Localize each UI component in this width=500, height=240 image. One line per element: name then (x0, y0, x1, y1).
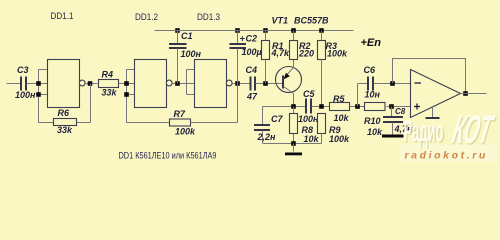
svg-text:DD1 К561ЛЕ10 или К561ЛА9: DD1 К561ЛЕ10 или К561ЛА9 (119, 150, 217, 161)
capacitor C2 (230, 28, 262, 83)
svg-text:BC557B: BC557B (294, 16, 329, 26)
svg-text:C2: C2 (246, 34, 258, 44)
svg-text:100k: 100k (175, 126, 196, 136)
capacitor C4 (246, 65, 259, 102)
power rail +En (155, 31, 382, 49)
svg-text:VT1: VT1 (272, 15, 289, 25)
svg-text:100k: 100k (327, 49, 348, 59)
resistor R3 (318, 28, 349, 106)
wire op-amp output (461, 93, 487, 95)
wire C6 to inverting input (374, 81, 411, 86)
svg-text:10k: 10k (334, 113, 350, 123)
svg-text:4,7k: 4,7k (271, 48, 291, 58)
svg-text:C4: C4 (246, 65, 258, 75)
capacitor C3 (15, 65, 36, 100)
capacitor C1 (169, 28, 202, 83)
transistor VT1 (272, 15, 330, 106)
svg-text:Радио: Радио (404, 115, 444, 148)
svg-text:radiokot.ru: radiokot.ru (405, 150, 488, 162)
ground C8 (382, 135, 404, 138)
ground (263, 141, 322, 155)
svg-text:DD1.1: DD1.1 (51, 11, 74, 21)
wire R5 to R10 (350, 104, 366, 109)
svg-text:R5: R5 (333, 94, 345, 104)
svg-text:100н: 100н (15, 90, 36, 100)
svg-text:R4: R4 (102, 70, 114, 80)
node DD1.1 input bar (36, 70, 47, 123)
resistor R8 (290, 107, 320, 144)
wire C5 to R5 (312, 104, 330, 109)
gate DD1.1 (48, 11, 86, 108)
node DD1.3 input bar (187, 70, 195, 95)
resistor R9 (318, 114, 351, 144)
svg-text:47: 47 (246, 92, 258, 102)
svg-text:10k: 10k (304, 134, 320, 144)
svg-text:33k: 33k (102, 88, 118, 98)
wire input (7, 83, 21, 85)
node DD1.2 input bar (124, 70, 134, 123)
svg-text:2,2н: 2,2н (257, 132, 277, 142)
svg-text:DD1.3: DD1.3 (197, 12, 220, 22)
svg-text:R7: R7 (174, 109, 186, 119)
wire C4 to VT1 base (256, 81, 283, 86)
svg-text:C6: C6 (364, 65, 376, 75)
resistor R7 (127, 84, 238, 137)
gate DD1.2 (135, 12, 173, 108)
resistor R10 (364, 103, 385, 137)
capacitor C8 (383, 107, 413, 135)
gate DD1.3 (195, 12, 233, 108)
svg-text:R6: R6 (58, 108, 70, 118)
svg-text:C3: C3 (17, 65, 29, 75)
resistor R4 (99, 70, 127, 98)
svg-text:C7: C7 (271, 114, 283, 124)
svg-text:220: 220 (298, 49, 314, 59)
svg-text:100µ: 100µ (242, 47, 262, 57)
capacitor C7 (254, 107, 283, 144)
wire R10 to op-amp (387, 104, 411, 109)
svg-text:10н: 10н (365, 90, 381, 100)
capacitor C6 (364, 65, 381, 100)
svg-text:33k: 33k (57, 125, 73, 135)
svg-text:+En: +En (361, 37, 382, 49)
svg-text:C5: C5 (303, 89, 315, 99)
wire to C6 (358, 84, 369, 107)
svg-text:DD1.2: DD1.2 (135, 12, 158, 22)
resistor R2 (290, 28, 315, 59)
svg-text:10k: 10k (367, 127, 383, 137)
wire DD1.2 to DD1.3 (172, 81, 186, 86)
capacitor C5 (298, 89, 319, 124)
svg-text:R10: R10 (364, 116, 381, 126)
resistor R6 (39, 84, 91, 135)
resistor R5 (330, 94, 350, 123)
resistor R1 (262, 28, 291, 83)
op-amp U1 (411, 70, 461, 119)
wire DD1.3 output (232, 81, 250, 86)
svg-text:C1: C1 (181, 31, 193, 41)
svg-text:100н: 100н (181, 49, 202, 59)
svg-text:100k: 100k (329, 134, 350, 144)
wire feedback loop (393, 59, 468, 96)
wire C7 corner to C5 (263, 104, 307, 109)
watermark radiokot (400, 106, 499, 162)
wire C3 to DD1.1 input (27, 83, 39, 85)
svg-text:100н: 100н (298, 114, 319, 124)
wire DD1.1 output (85, 81, 97, 86)
